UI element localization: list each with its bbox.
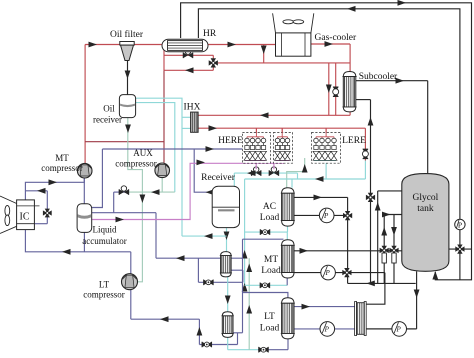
AC load evaporator (282, 188, 294, 194)
wire: LT pump line to HX (294, 328, 356, 330)
wire: cyan from oil receiver to IHX (136, 98, 182, 236)
wire: HERE box2 magenta drop (283, 160, 285, 163)
svg-text:Load: Load (261, 266, 281, 276)
wire: P pump outlet down to cross valve (459, 230, 461, 280)
wire: header drop to LT suction line (155, 213, 157, 259)
svg-text:AUX: AUX (133, 148, 153, 158)
liquid accumulator (77, 204, 92, 233)
svg-text:Load: Load (260, 213, 280, 223)
wire: HERE box1 magenta drop (255, 160, 257, 163)
wire: manifold riser to tank upper port (377, 191, 379, 284)
HERE evaporator box 2 (273, 133, 292, 164)
wire: IC bottom extension to bypass (34, 223, 47, 225)
AC glycol pump (319, 208, 334, 223)
wire: red line from subcooler to IHX (198, 114, 350, 116)
wire: main red discharge line through oil filter and HR (85, 44, 162, 46)
wire: HR bypass right leg (212, 55, 214, 70)
wire: manifold riser with valve A (383, 215, 385, 284)
wire: red drop from main line to gas-cooler bypass (263, 45, 265, 64)
svg-text:IHX: IHX (184, 103, 201, 113)
wire: AC load bottom drop (287, 226, 289, 232)
IC fan (0, 196, 17, 234)
wire: magenta liquid line from accumulator to HERE valves (92, 163, 284, 219)
LT glycol pump (320, 322, 335, 337)
wire: HX hot riser (364, 273, 385, 305)
svg-text:Liquid: Liquid (93, 225, 117, 235)
svg-text:HERE: HERE (218, 136, 243, 146)
svg-text:Load: Load (260, 324, 280, 334)
oil receiver (119, 95, 135, 118)
svg-text:accumulator: accumulator (82, 236, 126, 246)
valve: cross valve on return riser (366, 193, 375, 202)
wire: gas-cooler outlet down to subcooler (311, 43, 350, 45)
valve: MT cross valve (342, 268, 351, 277)
svg-text:AC: AC (263, 202, 276, 212)
svg-text:IC: IC (20, 212, 30, 223)
intercooler IC (17, 200, 35, 230)
wire: cyan from oil receiver to AUX suction (136, 103, 175, 193)
pipe spool below valve A (382, 253, 386, 263)
wire: cyan branch from receiver drop to IHX riser (182, 235, 227, 237)
wire: HR bypass ladder left leg / AUX discharge riser (163, 45, 165, 71)
wire: red drop to LERE expansion valve (364, 128, 366, 160)
svg-text:Receiver: Receiver (201, 173, 236, 183)
oil filter (120, 42, 134, 46)
wire: MT load feed line (243, 238, 284, 240)
wire: red stub to LERE box (325, 128, 327, 132)
wire: red stub to HERE box 1 (255, 128, 257, 132)
wire: navy drop from HERE line to accumulator (92, 149, 103, 208)
valve: expansion valve 1 (251, 170, 261, 176)
wire: receiver top riser to evaporator liquid rail (233, 173, 235, 186)
svg-text:compressor: compressor (115, 159, 157, 169)
wire: subcooler bottom down to IHX return line (349, 112, 351, 115)
wire: maroon MT compressor discharge header (85, 141, 164, 143)
wire: AC load top feed drop (291, 179, 293, 188)
separator vessel upper (221, 252, 232, 256)
wire: navy feed riser (242, 239, 244, 333)
wire: HX to glycol pump and tank bottom (364, 328, 416, 330)
wire: IHX left stubs (182, 116, 191, 118)
wire: AC pump line (294, 214, 344, 216)
LT load evaporator (282, 298, 294, 304)
wire: LT suction line from separator system (156, 257, 242, 259)
wire: subcooler bypass drop with valve (335, 63, 337, 115)
wire: lower separator side port (237, 333, 239, 345)
svg-text:MT: MT (264, 255, 278, 265)
subcooler (343, 72, 356, 77)
wire: HR bypass rung with globe valve (164, 54, 213, 56)
wire: glycol feed line into tank (384, 214, 402, 216)
wire: AC valve riser down to return header (347, 197, 349, 283)
wire: MT load bottom valve line (245, 284, 288, 286)
wire: MT load feed drop (286, 232, 288, 242)
wire: cyan evaporator feed header (245, 178, 366, 180)
svg-text:compressor: compressor (41, 163, 83, 173)
wire: cyan liquid rail under HERE boxes (234, 172, 297, 174)
gas-cooler (276, 33, 311, 56)
MT glycol pump (321, 265, 336, 280)
internal heat exchanger IHX (191, 112, 199, 132)
svg-text:Glycol: Glycol (412, 193, 438, 203)
wire: LT load feed line (243, 293, 288, 298)
wire: arrow into glycol tank bottom (432, 271, 438, 280)
HERE evaporator box 1 (242, 133, 270, 164)
wire: drop from valve to lower suction header (113, 192, 115, 213)
svg-text:Subcooler: Subcooler (359, 72, 398, 82)
pipe spool below valve B (392, 253, 396, 263)
wire: manifold riser with valve B (393, 215, 395, 284)
wire: subcooler to glycol tank top (356, 80, 428, 82)
pump P right (455, 219, 465, 229)
wire: AC load bottom valve line (245, 231, 288, 233)
svg-text:LT: LT (99, 280, 110, 290)
wire: subcooler lower right to load return riser (356, 99, 371, 101)
wire: lower separator bottom valve line (199, 344, 237, 346)
wire: LERE bottom center drop (325, 160, 327, 179)
wire: red stub to HERE box 2 (281, 128, 283, 132)
wire: navy interstage line to HERE (102, 148, 242, 150)
wire: MT suction continues to accumulator top (83, 178, 85, 204)
MT compressor (77, 163, 92, 178)
wire: HR outer top line to right border (181, 3, 472, 280)
svg-text:tank: tank (417, 204, 434, 214)
wire: navy drop to receiver (194, 149, 212, 192)
wire: MT load bottom drop (286, 278, 288, 285)
wire: liquid accumulator bottom stub (83, 232, 85, 251)
wire: red feed line from IHX to HERE and LERE evaporators (198, 127, 365, 129)
wire: magenta stems to expansion valve pilots (255, 163, 257, 169)
gas-cooler fan (273, 13, 314, 33)
svg-text:Gas-cooler: Gas-cooler (315, 33, 358, 43)
svg-text:Oil filter: Oil filter (110, 29, 144, 40)
wire: LT load outlet to HX (294, 306, 356, 308)
valve: expansion valve 2 (269, 170, 279, 176)
separator vessel lower (222, 312, 233, 316)
svg-text:Oil: Oil (103, 104, 115, 114)
MT load evaporator (282, 240, 294, 246)
LT compressor (122, 274, 138, 290)
valve: manifold cross valve A (380, 246, 389, 255)
wire: HR bypass bottom rung (164, 69, 213, 71)
svg-text:receiver: receiver (93, 115, 122, 125)
valve: IC bypass valve (43, 209, 52, 218)
wire: lower separator bottom to LT load bottom line (227, 337, 229, 349)
wire: AUX compressor suction drop (161, 178, 163, 193)
wire: teal oil drain from oil receiver (128, 117, 143, 282)
valve: AC cross valve (343, 211, 352, 220)
valve: manifold cross valve B (389, 246, 398, 255)
svg-text:HR: HR (203, 29, 217, 39)
wire: MT load outlet line to glycol tank (294, 250, 402, 252)
wire: IC bypass tee line (25, 190, 47, 192)
wire: LT compressor discharge riser (130, 252, 132, 274)
wire: LT load bottom drop (287, 339, 289, 350)
svg-text:LT: LT (264, 312, 275, 322)
wire: teal return riser (248, 258, 250, 350)
wire: cyan feed riser (244, 179, 246, 285)
glycol tank (402, 174, 449, 272)
wire: subcooler bypass drop with arrow (328, 63, 330, 115)
wire: glycol tank right to border through valve (449, 248, 472, 250)
receiver vessel (212, 186, 239, 227)
heat exchanger HR (162, 39, 208, 52)
svg-text:LERE: LERE (342, 136, 366, 146)
wire: oil filter riser / MT compressor discharge riser (84, 45, 86, 164)
wire: separator bottom valve line (198, 281, 243, 283)
svg-text:compressor: compressor (83, 290, 125, 300)
valve: cross valve at tank right (455, 245, 464, 254)
wire: oil filter stem to oil receiver (127, 61, 129, 96)
wire: cyan rail end drop (297, 173, 299, 179)
wire: HR inner top line to P pump riser (198, 9, 460, 220)
wire: separator side port riser (242, 270, 244, 282)
LERE evaporator box (312, 133, 341, 164)
plate heat exchanger (355, 302, 357, 336)
wire: receiver bottom drop to separator (226, 228, 228, 252)
wire: teal AC return riser (287, 158, 305, 188)
wire: lower separator to LT compressor (130, 290, 132, 319)
glycol circulation pump (392, 322, 407, 337)
wire: suction line with valve to liquid accumulator (114, 191, 126, 193)
wire: red line under gas-cooler (218, 62, 350, 64)
wire: AC load outlet to valve riser (294, 196, 348, 198)
valve: cross valve on gas-cooler return (209, 58, 218, 67)
wire: MT pump line (294, 272, 385, 274)
wire: suction drop to separator bottom valve (197, 258, 199, 282)
wire: LERE expansion valve outlet to feed header (364, 161, 366, 180)
wire: return header to glycol drop (348, 282, 416, 284)
svg-text:MT: MT (55, 153, 69, 163)
wire: lower suction header (92, 212, 156, 214)
wire: MT compressor suction from IC (25, 178, 84, 200)
wire: IC bypass valve drop (46, 191, 48, 224)
wire: IC bottom to LT discharge line (25, 230, 130, 252)
AUX compressor (155, 163, 170, 178)
wire: separator to lower separator cyan drop (227, 277, 229, 312)
